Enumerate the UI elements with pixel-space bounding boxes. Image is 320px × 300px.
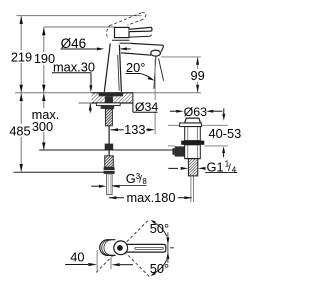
arrow max300 bottom xyxy=(42,142,45,150)
tail step line xyxy=(185,158,201,160)
column left edge xyxy=(104,43,110,91)
water stream right line xyxy=(159,59,164,81)
label max.300 xyxy=(31,107,60,134)
deck hatched section xyxy=(92,93,134,103)
label Ø34 with leader xyxy=(133,100,159,114)
svg-text:Ø63: Ø63 xyxy=(184,105,208,119)
svg-text:40-53: 40-53 xyxy=(209,126,242,141)
svg-text:8: 8 xyxy=(142,177,147,186)
faucet cartridge xyxy=(115,27,130,37)
arrow max300 top xyxy=(42,93,45,101)
swivel arc top xyxy=(154,222,167,236)
label 219 xyxy=(10,50,34,65)
waste flange xyxy=(180,123,202,127)
ref line 485 bottom xyxy=(14,171,105,173)
adapter hatched xyxy=(105,156,114,167)
svg-text:485: 485 xyxy=(9,124,30,139)
spout tip dimension line xyxy=(166,232,174,263)
lever pin xyxy=(117,245,123,251)
top view swivel dashed line B xyxy=(113,240,150,277)
supply nut xyxy=(104,167,115,174)
svg-text:219: 219 xyxy=(11,50,32,65)
arrow 485 bottom xyxy=(20,164,23,172)
arrow max30 lower (deck underside) xyxy=(89,103,92,112)
locknut xyxy=(101,106,115,109)
lever bar xyxy=(129,27,152,31)
pop-up rod horizontal xyxy=(39,149,174,151)
G3/8 dimension arrows xyxy=(91,185,120,188)
aerator xyxy=(151,50,161,56)
svg-text:50°: 50° xyxy=(150,221,169,236)
lever underside xyxy=(129,35,151,37)
basin line 2 left xyxy=(168,145,175,147)
svg-text:99: 99 xyxy=(190,68,204,83)
40-53 top arrow xyxy=(222,108,225,120)
top view body circle xyxy=(114,241,128,255)
svg-text:G: G xyxy=(126,171,136,186)
label 20deg xyxy=(126,60,155,81)
label 485 xyxy=(9,124,32,139)
spout bottom xyxy=(121,53,151,55)
arrow 190 top xyxy=(42,28,45,36)
swivel arc bottom xyxy=(154,259,167,273)
label 190 xyxy=(34,51,56,66)
tail tube lines xyxy=(190,176,192,202)
water stream left line xyxy=(154,56,156,89)
supply tube xyxy=(107,174,113,195)
waste seal ring xyxy=(181,141,204,145)
rod segment xyxy=(108,150,110,156)
ref line 219 top xyxy=(17,15,142,17)
svg-text:max.30: max.30 xyxy=(53,60,95,75)
column right edge xyxy=(119,45,121,92)
svg-text:20°: 20° xyxy=(126,60,145,75)
basin line 2 right xyxy=(204,145,228,147)
rod coupler xyxy=(105,144,114,151)
column inner line xyxy=(118,55,120,91)
svg-text:133: 133 xyxy=(124,122,145,137)
99 dimension xyxy=(161,57,206,93)
waste knob xyxy=(185,118,201,123)
max.180 dimension xyxy=(109,190,192,205)
G1 1/4 dimension arrows xyxy=(168,167,205,170)
svg-text:max.180: max.180 xyxy=(126,190,175,205)
svg-text:40: 40 xyxy=(70,250,84,265)
label max.30 with leader xyxy=(52,60,95,93)
deck bottom line xyxy=(79,102,134,104)
dashed lever open position xyxy=(107,12,146,37)
arrow 219 top xyxy=(20,16,23,24)
basin line left of waste xyxy=(168,124,180,126)
spout slot xyxy=(135,247,163,249)
arrow 190 bottom xyxy=(42,85,45,93)
40 dimension xyxy=(65,250,133,271)
arrow 485 top xyxy=(20,93,23,101)
svg-text:/: / xyxy=(228,162,231,174)
pull rod xyxy=(108,126,110,144)
faucet base plate section xyxy=(99,92,123,96)
svg-text:190: 190 xyxy=(34,51,55,66)
shank through deck xyxy=(105,96,113,103)
handle collar arcs xyxy=(102,240,110,255)
40-53 bottom arrow xyxy=(222,146,225,157)
spout top xyxy=(130,43,163,51)
svg-text:300: 300 xyxy=(32,119,53,134)
svg-text:50°: 50° xyxy=(150,261,169,276)
deck top line xyxy=(15,92,201,94)
label Ø63 with leader xyxy=(170,105,222,119)
top view spout xyxy=(127,244,166,252)
top view handle xyxy=(100,240,116,256)
label Ø46 with dimension xyxy=(61,36,131,51)
svg-text:G1: G1 xyxy=(207,159,224,174)
waste body upper xyxy=(185,127,201,141)
dim line 190/max300 vertical xyxy=(43,27,45,150)
collar lines xyxy=(112,39,129,41)
label G3/8 xyxy=(113,171,148,186)
133 dimension xyxy=(111,60,156,138)
waste tail hatched xyxy=(188,159,197,176)
threaded shank xyxy=(105,109,112,126)
ref line 190 top xyxy=(44,26,115,28)
label G1 1/4 xyxy=(205,159,237,174)
waste side port xyxy=(175,146,185,156)
dim line 219/485 vertical xyxy=(20,16,22,172)
waste body lower xyxy=(185,145,201,159)
washer under deck xyxy=(96,103,120,106)
basin line right of waste xyxy=(201,124,228,126)
top view swivel dashed line A xyxy=(96,220,149,273)
arrow 219 bottom xyxy=(20,85,23,93)
